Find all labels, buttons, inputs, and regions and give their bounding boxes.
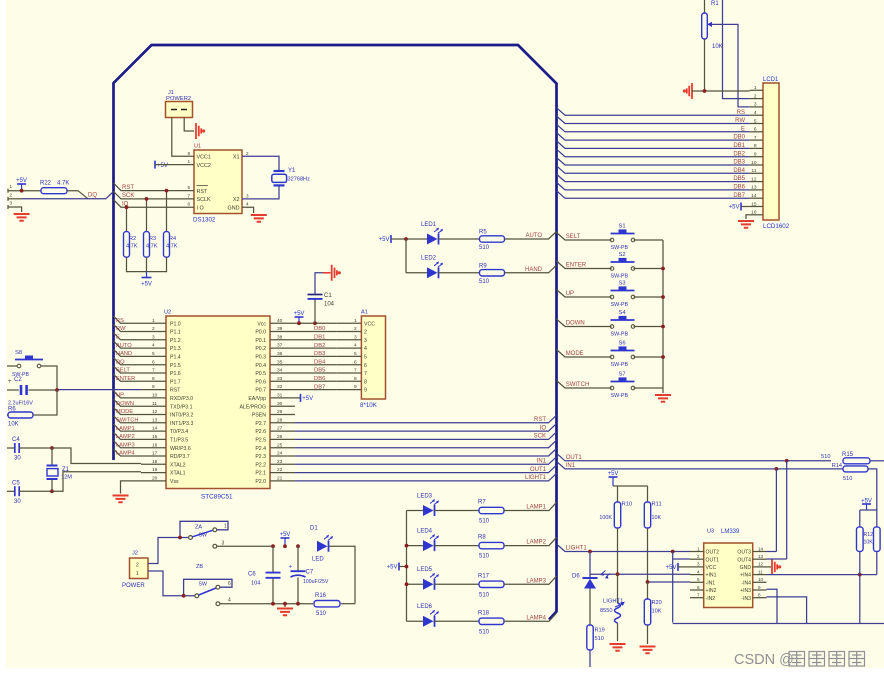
- pin 8 U3: [753, 597, 767, 599]
- wire pin9 down: [767, 589, 778, 623]
- svg-text:D6: D6: [572, 574, 580, 580]
- svg-text:P2.5: P2.5: [255, 438, 266, 444]
- wire +IN1 row: [590, 573, 690, 575]
- ground light sensor: [610, 644, 626, 651]
- pin 6 A1: [337, 364, 362, 366]
- pin 10 LCD1: [750, 164, 763, 166]
- svg-text:510: 510: [479, 629, 490, 635]
- pin 19 U2: [141, 472, 166, 474]
- wire divider down to rail: [859, 575, 861, 624]
- svg-text:DOWN: DOWN: [116, 401, 134, 407]
- pin 4 U3: [690, 574, 704, 576]
- svg-text:+5V: +5V: [302, 396, 313, 402]
- wire net LIGHT1 from bus to LM339 pin1: [557, 544, 691, 552]
- pin 30 U2: [270, 405, 295, 407]
- svg-text:100uF/25V: 100uF/25V: [303, 579, 329, 585]
- svg-text:SCK: SCK: [122, 193, 134, 199]
- svg-text:LED5: LED5: [417, 567, 433, 573]
- pin 5 U3: [690, 581, 704, 583]
- svg-text:6: 6: [152, 359, 155, 365]
- svg-text:8: 8: [364, 379, 367, 385]
- svg-text:DB5: DB5: [314, 368, 326, 374]
- svg-text:GND: GND: [740, 565, 752, 571]
- chip U1 DS1302: [194, 150, 242, 214]
- svg-text:1: 1: [224, 524, 227, 530]
- svg-text:RXD/P3.0: RXD/P3.0: [170, 396, 193, 402]
- svg-text:12: 12: [152, 409, 158, 415]
- svg-text:16: 16: [152, 442, 158, 448]
- svg-text:R8: R8: [478, 535, 486, 541]
- svg-text:30: 30: [277, 401, 283, 407]
- svg-text:SWITCH: SWITCH: [116, 418, 138, 424]
- svg-text:-IN4: -IN4: [741, 580, 751, 586]
- wire net DB2 bus to LCD pin 9: [557, 149, 750, 157]
- svg-text:510: 510: [479, 279, 490, 285]
- pin 8 LCD1: [750, 147, 763, 149]
- svg-text:C4: C4: [12, 437, 20, 443]
- svg-text:1: 1: [754, 85, 757, 91]
- svg-text:SW-PB: SW-PB: [611, 393, 629, 399]
- svg-text:R10: R10: [622, 502, 633, 508]
- wire net IN1 U2 pin 23 to bus: [295, 457, 557, 465]
- svg-text:+: +: [289, 564, 293, 571]
- svg-text:R3: R3: [149, 236, 156, 242]
- svg-text:S8: S8: [15, 350, 22, 356]
- wires RST IO SCK P2.7-P2.5 to bus: [295, 415, 557, 423]
- svg-text:X1: X1: [233, 155, 240, 161]
- svg-text:E: E: [741, 126, 745, 132]
- wire net DB7 bus to LCD pin 14: [557, 191, 750, 199]
- svg-text:21: 21: [277, 476, 283, 482]
- svg-text:DOWN: DOWN: [566, 321, 585, 327]
- pin 39 U2: [270, 331, 295, 333]
- svg-text:3: 3: [246, 193, 249, 198]
- svg-text:STC89C51: STC89C51: [201, 494, 233, 501]
- svg-text:10K: 10K: [8, 422, 19, 428]
- svg-text:SW-PB: SW-PB: [611, 332, 629, 338]
- svg-text:10: 10: [152, 393, 158, 399]
- chip A1 8*10K resistor network: [337, 322, 362, 324]
- svg-text:AUTO: AUTO: [116, 343, 132, 349]
- svg-text:POWER: POWER: [122, 583, 145, 589]
- wire net DQ bus to U2 pin 6: [114, 358, 142, 365]
- svg-text:S6: S6: [619, 340, 626, 346]
- pin 3 U2: [141, 339, 166, 341]
- svg-text:PSEN: PSEN: [252, 413, 266, 419]
- svg-text:P2.4: P2.4: [255, 446, 266, 452]
- pin 16 LCD1: [750, 214, 763, 216]
- wire net DB6 bus to LCD pin 13: [557, 182, 750, 190]
- svg-text:P1.0: P1.0: [170, 321, 181, 327]
- svg-text:510: 510: [479, 592, 490, 598]
- svg-text:P2.1: P2.1: [255, 471, 266, 477]
- svg-text:9: 9: [754, 152, 757, 158]
- svg-text:3: 3: [754, 102, 757, 108]
- connector J2 POWER: [130, 558, 149, 579]
- svg-text:X2: X2: [233, 197, 240, 203]
- svg-text:LAMP4: LAMP4: [526, 615, 546, 621]
- pin 12 U2: [141, 414, 166, 416]
- wire net E bus to U2 pin 3: [114, 333, 142, 340]
- svg-text:15: 15: [152, 434, 158, 440]
- svg-text:510: 510: [821, 454, 830, 460]
- LED LED2: [406, 272, 427, 274]
- svg-text:LAMP2: LAMP2: [116, 434, 135, 440]
- svg-text:510: 510: [479, 245, 490, 251]
- svg-text:3: 3: [364, 338, 367, 344]
- svg-text:24: 24: [277, 451, 283, 457]
- pin 14 U3: [753, 551, 767, 553]
- wire ZB throw4 to gnd rail: [216, 602, 220, 606]
- wire pot wiper to LCD pin3: [711, 24, 750, 107]
- svg-text:2: 2: [246, 151, 249, 156]
- svg-text:S1: S1: [619, 223, 626, 229]
- svg-text:5: 5: [152, 351, 155, 357]
- power +5V LM339 VCC: [677, 563, 679, 571]
- svg-text:LIGHT1: LIGHT1: [603, 599, 623, 605]
- svg-text:A1: A1: [361, 310, 368, 316]
- svg-text:7: 7: [754, 135, 757, 141]
- svg-text:DS1302: DS1302: [193, 217, 216, 224]
- switch ZA upper: [148, 538, 189, 564]
- svg-text:+5V: +5V: [157, 163, 168, 169]
- svg-text:IN1: IN1: [566, 463, 576, 469]
- svg-text:RW: RW: [735, 118, 745, 124]
- svg-text:SW-PB: SW-PB: [611, 245, 629, 251]
- svg-text:3: 3: [222, 541, 225, 547]
- junction pot bottom on gnd wire: [703, 89, 707, 93]
- power +5V on rail: [281, 537, 290, 539]
- resistor R9 510: [439, 272, 480, 274]
- pin 11 U2: [141, 405, 166, 407]
- switch ZB lower: [148, 571, 195, 596]
- svg-text:+IN4: +IN4: [740, 573, 751, 579]
- wire pin8 down: [767, 597, 807, 624]
- svg-text:9: 9: [758, 585, 761, 590]
- svg-text:+IN1: +IN1: [706, 573, 717, 579]
- svg-text:LED: LED: [312, 557, 324, 563]
- ground DS18B20 pin3: [8, 207, 22, 212]
- crystal Y1 32768Hz: [242, 156, 279, 170]
- svg-text:1: 1: [152, 318, 155, 324]
- svg-text:510: 510: [479, 519, 490, 525]
- wire net HAND to bus: [505, 265, 557, 273]
- wire net DB5 bus to LCD pin 12: [557, 174, 750, 182]
- svg-text:RS: RS: [116, 318, 124, 324]
- wire net RS bus to LCD pin 4: [557, 108, 750, 116]
- svg-text:2: 2: [697, 554, 700, 559]
- svg-text:ALE/PROG: ALE/PROG: [239, 404, 266, 410]
- power +5V lamp rail: [398, 563, 400, 571]
- pin 31 U2: [270, 397, 295, 399]
- svg-text:104: 104: [324, 302, 335, 308]
- svg-text:4: 4: [152, 343, 155, 349]
- resistor R14 510: [843, 466, 868, 472]
- wires DB0..DB7 U2 P0 to A1: [295, 331, 337, 333]
- svg-text:RST: RST: [122, 185, 134, 191]
- svg-text:XTAL1: XTAL1: [170, 471, 186, 477]
- svg-text:1: 1: [697, 546, 700, 551]
- svg-text:11: 11: [758, 569, 763, 574]
- svg-text:29: 29: [277, 409, 283, 415]
- svg-text:10K: 10K: [864, 540, 874, 546]
- crystal Z1: [51, 448, 53, 465]
- svg-text:LAMP3: LAMP3: [116, 442, 135, 448]
- svg-text:10: 10: [758, 577, 764, 582]
- pin 1 U2: [141, 322, 166, 324]
- pin 12 U3: [753, 566, 767, 568]
- wire net E bus to LCD pin 6: [557, 124, 750, 132]
- connector stubs left edge (DS18B20): [7, 189, 9, 193]
- wire net LAMP3 to bus: [504, 576, 557, 584]
- wire net AUTO bus to U2 pin 4: [114, 341, 142, 348]
- button S6 net MODE: [557, 350, 612, 358]
- wire buttons common rail to ground: [662, 240, 664, 393]
- power +5V flag at R22: [8, 190, 41, 192]
- svg-text:POWER2: POWER2: [166, 96, 191, 102]
- pin 26 U2: [270, 438, 295, 440]
- wire R14 to divider: [868, 469, 877, 510]
- power +5V divider R10 R11: [609, 476, 618, 478]
- svg-text:+5V: +5V: [608, 471, 619, 477]
- svg-text:XTAL2: XTAL2: [170, 462, 186, 468]
- wire ZA throw1 loop back: [180, 521, 228, 537]
- power +5V LED1 LED2 rail: [390, 235, 392, 243]
- pin 13 U3: [753, 558, 767, 560]
- ground filter rail: [284, 604, 286, 607]
- svg-text:13: 13: [152, 417, 158, 423]
- svg-text:C1: C1: [324, 293, 332, 299]
- svg-text:DB0: DB0: [314, 326, 326, 332]
- svg-text:3: 3: [10, 201, 13, 206]
- svg-text:OUT1: OUT1: [566, 455, 583, 461]
- resistor R7 510: [435, 510, 480, 512]
- svg-text:27: 27: [277, 426, 283, 432]
- svg-text:C5: C5: [12, 480, 20, 486]
- svg-text:6: 6: [697, 585, 700, 590]
- wire net SELT bus to U2 pin 7: [114, 366, 142, 373]
- svg-text:11: 11: [752, 168, 757, 174]
- svg-text:ZB: ZB: [196, 564, 203, 570]
- pin 13 LCD1: [750, 189, 763, 191]
- svg-text:R6: R6: [8, 407, 16, 413]
- svg-text:-IN3: -IN3: [741, 596, 751, 602]
- LED LED6: [407, 620, 424, 622]
- svg-text:4.7K: 4.7K: [57, 180, 69, 186]
- svg-text:14: 14: [152, 426, 158, 432]
- pin 8 U2: [141, 380, 166, 382]
- LED LED1: [427, 234, 438, 245]
- pin 1 LCD1: [750, 89, 763, 91]
- svg-text:4: 4: [228, 598, 231, 604]
- svg-text:1: 1: [136, 571, 139, 577]
- wire net LAMP1 bus to U2 pin 14: [114, 424, 142, 431]
- pin 16 U2: [141, 447, 166, 449]
- svg-text:20: 20: [152, 476, 158, 482]
- svg-text:R18: R18: [478, 610, 490, 616]
- wire net OUT1 from bus to R15: [557, 453, 832, 461]
- svg-text:VCC1: VCC1: [197, 155, 211, 161]
- resistor R16 510: [314, 601, 340, 607]
- bus main loop: [114, 45, 557, 620]
- svg-text:S3: S3: [619, 280, 626, 286]
- svg-text:+5V: +5V: [280, 532, 291, 538]
- svg-text:40: 40: [277, 318, 283, 324]
- svg-text:P2.3: P2.3: [255, 454, 266, 460]
- wire R22 to DQ net: [67, 191, 88, 199]
- svg-text:R22: R22: [40, 180, 52, 186]
- svg-text:SW-PB: SW-PB: [611, 362, 629, 368]
- pin 1 U3: [690, 551, 704, 553]
- pin 8 A1: [337, 380, 362, 382]
- svg-text:32: 32: [277, 384, 283, 390]
- svg-text:RD/P3.7: RD/P3.7: [170, 454, 190, 460]
- svg-text:4.7K: 4.7K: [166, 244, 178, 250]
- resistor R10 100K: [617, 486, 619, 502]
- svg-text:DB7: DB7: [314, 384, 325, 390]
- pin 10 U2: [141, 397, 166, 399]
- wire net DB1 bus to LCD pin 8: [557, 141, 750, 149]
- svg-text:+IN3: +IN3: [740, 588, 751, 594]
- svg-text:6: 6: [364, 363, 367, 369]
- svg-text:DB6: DB6: [733, 185, 745, 191]
- svg-text:U1: U1: [194, 144, 201, 150]
- pin 40 U2: [270, 322, 295, 324]
- button S3 net UP: [557, 290, 612, 298]
- svg-text:10: 10: [751, 160, 757, 166]
- svg-text:4: 4: [354, 343, 357, 349]
- svg-text:R12: R12: [864, 532, 874, 538]
- chip U2 STC89C51: [166, 316, 270, 489]
- wire pullup common rail to +5V: [127, 257, 167, 271]
- wire U2 pin 24 to bus: [295, 449, 557, 457]
- svg-text:R4: R4: [169, 236, 176, 242]
- resistor R4 4.7K pullup: [166, 191, 168, 232]
- pin 9 LCD1: [750, 156, 763, 158]
- wire OUT3 pin14 up: [767, 551, 777, 553]
- svg-text:OUT2: OUT2: [706, 550, 720, 556]
- wire net ENTER bus to U2 pin 8: [114, 374, 142, 381]
- svg-text:6: 6: [754, 127, 757, 133]
- svg-text:RST: RST: [534, 417, 546, 423]
- wire ZB throw6 loop back: [184, 579, 232, 596]
- pin 6 U2: [141, 364, 166, 366]
- resistor R3 4.7K pullup: [146, 199, 148, 232]
- svg-text:8*10K: 8*10K: [360, 402, 378, 409]
- svg-text:SW-PB: SW-PB: [611, 274, 629, 280]
- svg-text:MODE: MODE: [116, 409, 133, 415]
- svg-text:+: +: [8, 379, 12, 385]
- wire POWER2 pin1 to DS1302 VCC1: [172, 118, 194, 157]
- wire net AUTO to bus: [505, 232, 557, 240]
- pin 5 A1: [337, 355, 362, 357]
- power +5V at EA pin31: [295, 397, 300, 399]
- wire D1 to R16: [329, 546, 355, 604]
- wire ZA throw3 to +5V rail: [213, 544, 217, 548]
- svg-text:R19: R19: [595, 628, 605, 634]
- svg-text:GND: GND: [228, 205, 240, 211]
- svg-text:4: 4: [364, 346, 367, 352]
- svg-text:P0.1: P0.1: [255, 338, 266, 344]
- svg-text:DB0: DB0: [733, 135, 745, 141]
- svg-text:7: 7: [364, 371, 367, 377]
- svg-text:INT1/P3.3: INT1/P3.3: [170, 421, 193, 427]
- pin 32 U2: [270, 389, 295, 391]
- button S8 reset: [7, 365, 17, 367]
- pin 3 LCD1: [750, 106, 763, 108]
- svg-text:30: 30: [14, 456, 21, 462]
- wire net UP bus to U2 pin 10: [114, 391, 142, 398]
- svg-text:11: 11: [152, 401, 157, 407]
- svg-text:16: 16: [751, 210, 757, 216]
- svg-text:VCC: VCC: [706, 565, 717, 571]
- svg-text:DB3: DB3: [733, 160, 745, 166]
- svg-text:SW: SW: [199, 533, 207, 539]
- pin 7 U2: [141, 372, 166, 374]
- wire net MODE bus to U2 pin 12: [114, 408, 142, 415]
- svg-text:4: 4: [754, 110, 757, 116]
- pin 4 U2: [141, 347, 166, 349]
- LED LED3: [407, 510, 424, 512]
- wire net LAMP4 to bus: [504, 613, 557, 621]
- wire net DOWN bus to U2 pin 11: [114, 399, 142, 406]
- svg-text:TXD/P3.1: TXD/P3.1: [170, 404, 193, 410]
- pin 7 U3: [690, 597, 704, 599]
- svg-text:C2: C2: [14, 377, 22, 383]
- svg-text:35: 35: [277, 359, 283, 365]
- svg-text:LM339: LM339: [721, 529, 740, 535]
- resistor R2 4.7K pullup: [126, 207, 128, 231]
- pin 11 LCD1: [750, 172, 763, 174]
- svg-text:P1.3: P1.3: [170, 346, 181, 352]
- LED D1 power indicator: [317, 541, 328, 552]
- power +5V at DS1302 VCC2: [154, 161, 156, 169]
- svg-text:R5: R5: [479, 230, 487, 236]
- pin 6 LCD1: [750, 131, 763, 133]
- wire gnd to LCD pin1: [692, 90, 750, 92]
- pin 6 U3: [690, 589, 704, 591]
- resistor R20 10K: [647, 582, 649, 599]
- wire POWER2 pin2 to ground: [184, 118, 194, 132]
- pin 5 U2: [141, 355, 166, 357]
- svg-text:1: 1: [187, 159, 190, 164]
- pin 2 U2: [141, 331, 166, 333]
- svg-text:R15: R15: [842, 452, 854, 458]
- svg-text:DQ: DQ: [88, 192, 97, 198]
- pin 9 U3: [753, 589, 767, 591]
- svg-text:2: 2: [354, 326, 357, 332]
- svg-text:Y1: Y1: [288, 168, 296, 174]
- svg-text:P2.2: P2.2: [255, 462, 266, 468]
- svg-text:LIGHT1: LIGHT1: [566, 546, 588, 552]
- svg-text:12: 12: [758, 562, 764, 567]
- svg-text:7: 7: [152, 368, 155, 374]
- svg-text:32768Hz: 32768Hz: [288, 177, 311, 183]
- button S4 net DOWN: [557, 319, 612, 327]
- svg-text:P0.2: P0.2: [255, 346, 266, 352]
- pin 7 A1: [337, 372, 362, 374]
- wire net RS bus to U2 pin 1: [114, 316, 142, 323]
- svg-text:IN1: IN1: [537, 459, 547, 465]
- svg-text:15: 15: [751, 201, 757, 207]
- svg-text:14: 14: [758, 546, 764, 551]
- svg-text:2: 2: [136, 563, 139, 569]
- svg-text:U3: U3: [707, 529, 714, 535]
- ground buttons rail: [655, 395, 671, 402]
- svg-text:DB7: DB7: [733, 193, 745, 199]
- svg-text:8: 8: [754, 143, 757, 149]
- svg-text:OUT1: OUT1: [706, 557, 720, 563]
